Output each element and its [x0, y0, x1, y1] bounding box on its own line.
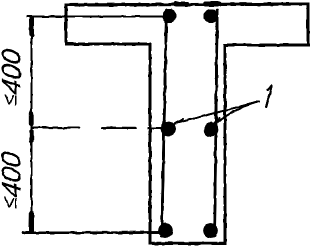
rebar dot top-left [163, 9, 177, 23]
stirrup hook mark right [205, 2, 219, 7]
leader arrow mid-left [175, 119, 183, 124]
rebar dot top-right [204, 9, 218, 23]
dimension line vertical [31, 17, 33, 233]
leader line to mid-left bar [175, 102, 259, 124]
rebar dot bottom-right [203, 223, 217, 237]
stirrup hook mark left [176, 2, 187, 7]
dimension arrow tick top [29, 18, 34, 35]
rebar dot mid-right [204, 122, 218, 136]
leader line to mid-right bar [213, 102, 259, 126]
stirrup left leg [162, 10, 167, 236]
dimension arrow tick mid-upper [29, 113, 33, 124]
stirrup right leg [215, 10, 218, 236]
leader arrow mid-right [213, 118, 219, 125]
dimension arrow tick mid-lower [29, 131, 33, 141]
T-beam outline [66, 4, 308, 243]
svg-text:≤400: ≤400 [0, 47, 26, 107]
extension line bottom [23, 231, 159, 234]
rebar dot bottom-left [158, 223, 172, 237]
dimension arrow tick bottom [29, 213, 34, 231]
rebar dot mid-left [161, 121, 176, 136]
extension line top [27, 16, 162, 18]
extension line middle (dashed) [33, 127, 163, 130]
callout label 1 [266, 86, 272, 107]
svg-text:≤400: ≤400 [0, 150, 26, 210]
